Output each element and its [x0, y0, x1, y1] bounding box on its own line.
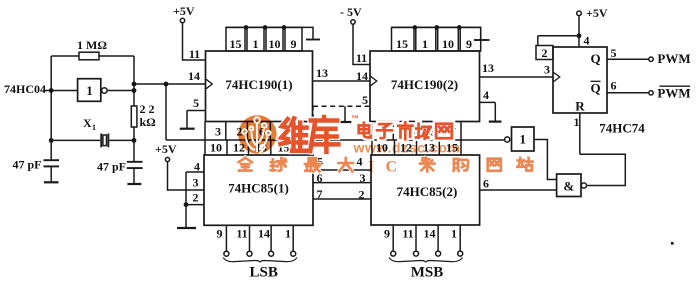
svg-text:7: 7	[317, 187, 323, 201]
svg-text:5: 5	[362, 93, 368, 107]
svg-text:4: 4	[357, 155, 363, 169]
svg-text:14: 14	[424, 227, 436, 241]
svg-text:X: X	[83, 116, 92, 130]
svg-text:Q: Q	[590, 81, 600, 96]
svg-text:10: 10	[269, 37, 281, 51]
svg-text:Q: Q	[590, 51, 600, 66]
svg-text:1: 1	[92, 123, 96, 132]
svg-text:14: 14	[258, 227, 270, 241]
svg-text:C: C	[386, 159, 398, 176]
svg-text:3: 3	[544, 63, 550, 77]
svg-text:+5V: +5V	[155, 142, 177, 156]
svg-text:9: 9	[291, 37, 297, 51]
svg-text:I: I	[368, 159, 374, 176]
svg-text:6: 6	[611, 79, 617, 93]
svg-text:10: 10	[210, 141, 222, 155]
svg-text:11: 11	[189, 47, 200, 61]
svg-text:PWM: PWM	[657, 86, 690, 101]
svg-text:14: 14	[356, 69, 368, 83]
svg-text:11: 11	[356, 51, 367, 65]
svg-text:13: 13	[316, 66, 328, 80]
svg-text:1: 1	[451, 227, 457, 241]
svg-text:74HC04: 74HC04	[4, 82, 46, 96]
svg-text:™: ™	[351, 114, 359, 123]
svg-text:74HC190(2): 74HC190(2)	[391, 77, 458, 92]
svg-text:9: 9	[384, 227, 390, 241]
svg-text:74HC190(1): 74HC190(1)	[225, 77, 292, 92]
svg-text:74HC74: 74HC74	[599, 121, 645, 136]
svg-text:11: 11	[402, 227, 413, 241]
svg-text:MSB: MSB	[411, 265, 444, 281]
svg-text:PWM: PWM	[657, 51, 690, 66]
svg-text:2: 2	[359, 188, 365, 202]
svg-text:www.dzsc.com: www.dzsc.com	[353, 139, 461, 155]
svg-text:14: 14	[188, 69, 200, 83]
svg-text:1 MΩ: 1 MΩ	[77, 38, 107, 52]
svg-text:1: 1	[285, 227, 291, 241]
svg-text:1: 1	[253, 37, 259, 51]
svg-text:15: 15	[230, 37, 242, 51]
svg-text:2: 2	[542, 46, 548, 60]
svg-text:6: 6	[483, 177, 489, 191]
svg-text:9: 9	[466, 37, 472, 51]
svg-text:R: R	[575, 99, 585, 114]
svg-text:1: 1	[574, 115, 580, 129]
svg-text:13: 13	[482, 61, 494, 75]
svg-text:&: &	[563, 179, 574, 194]
svg-text:74HC85(1): 74HC85(1)	[228, 181, 289, 196]
svg-text:+5V: +5V	[586, 6, 608, 20]
svg-text:1: 1	[519, 132, 526, 147]
svg-text:2: 2	[193, 191, 199, 205]
svg-text:10: 10	[442, 37, 454, 51]
svg-text:4: 4	[584, 34, 590, 48]
svg-text:4: 4	[194, 160, 200, 174]
svg-text:3: 3	[193, 176, 199, 190]
svg-text:3: 3	[215, 125, 221, 139]
svg-text:LSB: LSB	[250, 265, 278, 281]
svg-text:4: 4	[483, 88, 489, 102]
svg-text:15: 15	[396, 37, 408, 51]
svg-text:47 pF: 47 pF	[97, 160, 126, 174]
svg-text:5: 5	[611, 46, 617, 60]
svg-text:1: 1	[422, 37, 428, 51]
svg-text:5: 5	[193, 96, 199, 110]
svg-text:9: 9	[217, 227, 223, 241]
svg-text:2 2: 2 2	[140, 102, 155, 116]
svg-text:11: 11	[236, 227, 247, 241]
svg-text:- 5V: - 5V	[340, 5, 362, 19]
svg-text:47 pF: 47 pF	[13, 158, 42, 172]
svg-text:1: 1	[86, 83, 93, 98]
svg-text:+5V: +5V	[173, 4, 195, 18]
svg-text:kΩ: kΩ	[140, 115, 157, 129]
svg-text:3: 3	[360, 171, 366, 185]
svg-text:74HC85(2): 74HC85(2)	[397, 184, 458, 199]
